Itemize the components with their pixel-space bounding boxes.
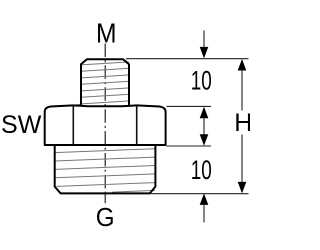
hex facet line left <box>72 106 74 145</box>
arrow up to hex-top line <box>200 107 209 119</box>
H dim stem lower <box>241 135 243 183</box>
svg-text:H: H <box>234 109 250 137</box>
arrow down to hex-bottom line <box>200 134 209 146</box>
dim 10 bottom: stem below <box>203 205 205 222</box>
stem between middle arrows <box>203 118 205 135</box>
stud M outline <box>81 59 129 106</box>
extension line bottom <box>151 193 249 195</box>
svg-text:M: M <box>96 17 117 49</box>
svg-text:G: G <box>96 203 115 232</box>
arrow up to bottom line <box>200 193 209 205</box>
extension line hex bottom <box>167 145 212 147</box>
H dim stem upper <box>241 70 243 111</box>
thread lines M stud <box>73 62 129 106</box>
thread lines G section <box>55 149 156 192</box>
centerline bottom tick <box>104 194 106 203</box>
centerline <box>104 44 106 194</box>
G section outline <box>55 145 156 193</box>
svg-text:10: 10 <box>191 65 212 95</box>
extension line hex top <box>167 105 212 107</box>
hex body outline <box>45 105 166 145</box>
svg-text:SW: SW <box>1 111 42 139</box>
H dimension line bottom arrow <box>238 182 247 194</box>
hex facet line right <box>136 106 138 145</box>
H dimension line top arrow <box>238 59 247 71</box>
svg-text:10: 10 <box>191 155 212 185</box>
extension line top (stud top) <box>126 58 249 60</box>
dim 10 top: stem above <box>203 30 205 47</box>
arrow down to stud-top line <box>200 47 209 59</box>
